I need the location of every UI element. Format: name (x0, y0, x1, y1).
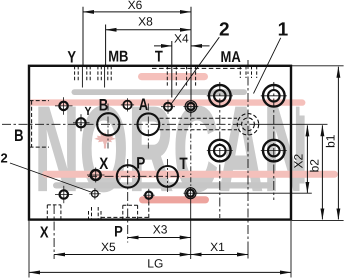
svg-text:X4: X4 (174, 32, 189, 46)
extension line MB (105, 25, 107, 66)
orifice node 2 top (164, 103, 172, 111)
extension line plate left bottom (28, 221, 30, 278)
port MA top-hole hidden outline (240, 66, 256, 78)
extension line Y (82, 7, 84, 66)
extension line top edge right (292, 65, 344, 67)
svg-text:Y: Y (67, 47, 76, 66)
hidden channel bottom (101, 216, 150, 218)
watermark gray bar 1 (72, 89, 248, 95)
side port B hidden outline (30, 100, 50, 102)
dimension X5 (54, 254, 191, 256)
port T top-hole hidden outline (167, 66, 176, 86)
dimension X4 (154, 45, 172, 47)
svg-text:B: B (99, 95, 108, 114)
hidden edge below top (152, 67, 243, 69)
dimension b2 (321, 125, 323, 219)
port B circle (97, 113, 119, 135)
port MB top centerline (104, 66, 106, 88)
svg-text:X3: X3 (153, 223, 168, 237)
extension line orifice right (196, 192, 312, 194)
svg-text:X2: X2 (292, 154, 306, 169)
dimension X6 (83, 11, 191, 13)
hole near node 2 hidden outline (187, 66, 196, 86)
orifice below T (185, 188, 196, 199)
bolt hole bottom-left (60, 190, 68, 198)
svg-text:LG: LG (147, 256, 163, 270)
svg-text:X8: X8 (138, 14, 153, 28)
leader callout 1 (254, 38, 281, 94)
svg-text:X: X (99, 154, 108, 172)
watermark NORCAN text (35, 83, 309, 218)
port Y small circle (76, 118, 85, 127)
svg-text:X1: X1 (210, 240, 225, 254)
watermark pink bar 2 (28, 99, 305, 105)
port X small circle (91, 170, 101, 180)
extension line hole 2 (190, 7, 192, 102)
svg-text:P: P (114, 222, 123, 240)
hidden port MA circle (237, 114, 258, 135)
orifice near B top (123, 101, 131, 109)
leader callout 2 top (172, 37, 220, 103)
port P circle (117, 165, 139, 187)
svg-text:b2: b2 (308, 159, 322, 173)
port Y top-hole hidden outline (75, 66, 91, 81)
extension line orifice T bottom (190, 199, 192, 260)
dimension X1 (191, 254, 248, 256)
svg-text:X: X (40, 223, 49, 241)
svg-text:b1: b1 (324, 134, 338, 148)
main centerline row2 (88, 175, 187, 177)
dimension LG (29, 271, 291, 273)
orifice right of node 2 (185, 101, 197, 113)
port T circle (157, 166, 178, 187)
watermark pink bar 1 (138, 73, 208, 80)
counterbored ring hole bottom-right (263, 140, 285, 162)
bottom port P hidden outline (123, 205, 138, 219)
extension line port P bottom (127, 159, 129, 243)
counterbored ring hole top-right (263, 85, 285, 107)
bottom orifice hidden outline (89, 207, 102, 220)
hidden channel orifice column (190, 112, 192, 188)
dimension b1 (337, 67, 339, 220)
svg-text:X5: X5 (101, 240, 116, 254)
svg-text:X6: X6 (128, 0, 143, 12)
orifice node 2 bottom (92, 190, 99, 197)
svg-text:Y: Y (84, 105, 91, 119)
svg-text:A: A (139, 95, 149, 114)
extension line port X bottom (53, 205, 55, 259)
extension line plate right bottom (290, 221, 292, 278)
plate body outline (29, 66, 291, 220)
dimension X2 (306, 125, 308, 192)
svg-text:MA: MA (220, 47, 241, 65)
bottom port X hidden outline (47, 205, 61, 220)
dimension X3 (128, 237, 191, 239)
svg-text:1: 1 (278, 20, 289, 41)
watermark gray bar 2 (53, 182, 272, 188)
svg-text:2: 2 (0, 150, 7, 165)
centerline ring column left (219, 82, 221, 218)
svg-text:T: T (155, 47, 163, 65)
watermark pink bar 4 (139, 196, 209, 203)
counterbored ring hole bottom-left (209, 140, 231, 162)
svg-text:T: T (179, 154, 188, 172)
port Y top centerline (81, 66, 83, 88)
bolt hole top-left (59, 102, 67, 110)
extension line bottom edge right (292, 219, 344, 221)
counterbored ring hole top-left (209, 85, 231, 107)
dimension X8 (106, 29, 191, 31)
centerline MA column (247, 60, 249, 245)
watermark maple leaf (94, 132, 115, 148)
svg-text:B: B (14, 125, 23, 144)
orifice below P (145, 192, 152, 199)
port A circle (138, 113, 160, 135)
leader callout 2 left (10, 163, 92, 193)
extension line T (171, 41, 173, 98)
svg-text:MB: MB (108, 47, 128, 65)
svg-text:P: P (136, 154, 145, 172)
watermark pink bar 3 (42, 171, 338, 178)
hidden passage A to MA (160, 117, 238, 119)
main centerline row1 (2, 123, 259, 125)
watermark N stem trim patches (300, 96, 313, 116)
svg-text:2: 2 (219, 20, 230, 41)
port MB top-hole hidden outline (98, 66, 111, 81)
centerline ring column right (273, 82, 275, 200)
